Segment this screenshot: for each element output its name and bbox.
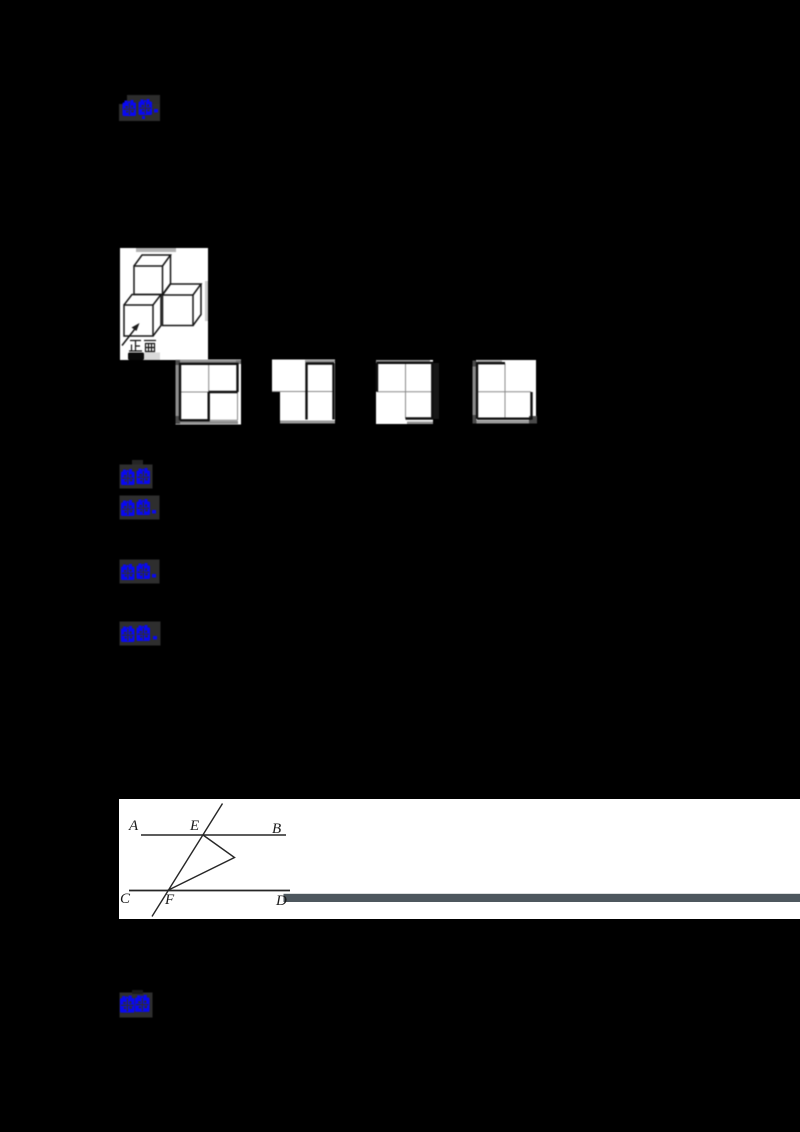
geometry figure band (parallel lines AB, CD with transversal EF) bbox=[119, 799, 800, 919]
long slate rule bbox=[284, 894, 800, 902]
arrowhead bbox=[132, 323, 140, 331]
arrow (front direction) bbox=[122, 325, 138, 346]
angle lines E-V-F bbox=[168, 835, 235, 891]
svg-text:A: A bbox=[128, 818, 139, 834]
options row: four 2x2 grid pictures bbox=[170, 355, 545, 430]
gray strip top bbox=[136, 248, 176, 252]
top cube bbox=[134, 266, 163, 295]
option C bbox=[376, 360, 439, 424]
cube figure (question stem) bbox=[120, 248, 208, 360]
option A bbox=[176, 360, 242, 425]
line AB bbox=[141, 834, 286, 836]
bottom-left cube bbox=[124, 305, 153, 336]
option B bbox=[272, 360, 335, 424]
label 正面 bbox=[129, 341, 156, 352]
transversal through E and F bbox=[152, 804, 223, 917]
blue marker 4 (jieda) bbox=[118, 557, 164, 587]
option D bbox=[473, 360, 538, 424]
blue marker 5 (dianping) bbox=[118, 619, 165, 649]
svg-text:B: B bbox=[272, 821, 281, 837]
blue marker 3 (fenxi) bbox=[118, 493, 164, 523]
svg-text:E: E bbox=[189, 818, 199, 834]
black blob bbox=[128, 353, 144, 361]
bottom-right cube bbox=[163, 295, 194, 326]
blue marker 6 (kaodian bottom) bbox=[118, 989, 158, 1021]
blue marker 1 (answer label) bbox=[0, 0, 1, 1]
line CD bbox=[129, 890, 290, 892]
labels bbox=[120, 818, 287, 909]
gray blob bbox=[144, 353, 160, 361]
blue marker 2 (kaodian) bbox=[118, 459, 162, 491]
svg-text:C: C bbox=[120, 891, 131, 907]
gray strip right bbox=[205, 281, 208, 321]
svg-text:D: D bbox=[275, 893, 287, 909]
svg-text:F: F bbox=[164, 892, 175, 908]
